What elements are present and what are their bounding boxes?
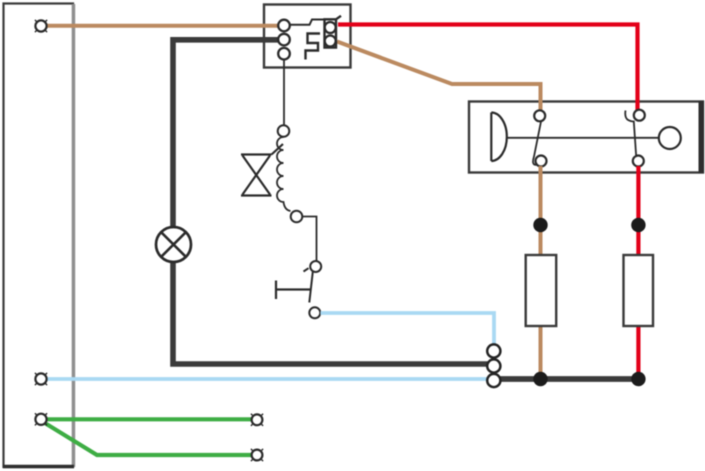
horn contact right: lower terminal — [633, 156, 644, 167]
wire red: horn box down to resistor 2 — [636, 166, 640, 256]
junction dot bus left — [533, 372, 547, 386]
panel terminal 3 — [35, 413, 47, 425]
flasher hourglass symbol — [241, 144, 283, 196]
junction dot bus right — [631, 372, 645, 386]
horn symbol — [491, 113, 507, 162]
resistor 1 — [526, 255, 557, 326]
relay coil glyph (5-shape) — [306, 34, 321, 60]
horn contact left: lower terminal — [536, 156, 547, 167]
wire brown: relay lower output diagonal to horn-box left terminal — [337, 42, 541, 112]
pilot light in horn box — [659, 127, 681, 149]
flasher coil — [277, 137, 291, 211]
junction dot above resistor 2 — [631, 218, 645, 232]
wire blue: panel terminal 2 to connector stack — [47, 377, 488, 381]
wire green: panel terminal 3 straight to connector — [47, 417, 252, 421]
resistor 2 — [624, 255, 654, 326]
relay terminal 3 — [278, 48, 290, 60]
relay switch arm — [290, 20, 326, 25]
green connector pin upper — [251, 414, 263, 426]
ground bus thick black — [499, 376, 638, 382]
panel terminal 1 — [35, 20, 47, 32]
relay terminal 2 — [278, 34, 290, 46]
wire brown: resistor 1 to ground bus — [539, 326, 543, 379]
brake switch lower terminal — [309, 307, 320, 318]
wire blue: brake switch to connector stack — [321, 313, 495, 345]
wire brown: horn box down to resistor 1 — [539, 166, 543, 256]
connector stack pin 3 — [487, 374, 500, 387]
relay terminal 4 (top right) — [325, 22, 336, 33]
green connector pin lower — [251, 449, 263, 461]
wire brown: panel terminal 1 to relay terminal 1 — [44, 24, 280, 28]
horn contact left: blade — [533, 122, 541, 165]
brake switch actuator — [276, 281, 311, 300]
relay contact frame (8-shape) — [325, 16, 342, 48]
switch panel box (left) — [3, 4, 74, 468]
brake switch upper terminal — [310, 261, 321, 272]
connector stack pin 2 — [487, 359, 500, 372]
wire red: relay output to horn-box right terminal — [338, 25, 638, 112]
horn contact right: upper terminal — [634, 110, 645, 121]
horn contact right: blade — [625, 111, 636, 159]
relay terminal 5 (bottom right) — [325, 36, 336, 47]
horn box — [469, 101, 703, 173]
indicator lamp — [156, 227, 191, 262]
flasher terminal A — [278, 125, 290, 137]
wire green: panel terminal 3 diagonal to lower connector — [44, 423, 251, 456]
wire thin: flasher to brake switch — [303, 217, 317, 262]
relay terminal 1 — [278, 20, 290, 32]
junction dot above resistor 1 — [533, 218, 547, 232]
horn contact left: upper terminal — [534, 110, 545, 121]
connector stack pin 1 — [487, 344, 500, 357]
horn box internal bus line — [507, 137, 659, 139]
flasher terminal B — [291, 211, 303, 223]
brake switch blade — [304, 268, 313, 302]
wire thin: relay terminal 3 down to flasher unit — [283, 56, 285, 126]
wire red: resistor 2 to ground bus — [636, 326, 640, 379]
wire black thick: relay terminal 2 down-left through lamp to connector stack — [173, 40, 488, 364]
panel terminal 2 — [35, 373, 47, 385]
relay box — [264, 5, 351, 68]
